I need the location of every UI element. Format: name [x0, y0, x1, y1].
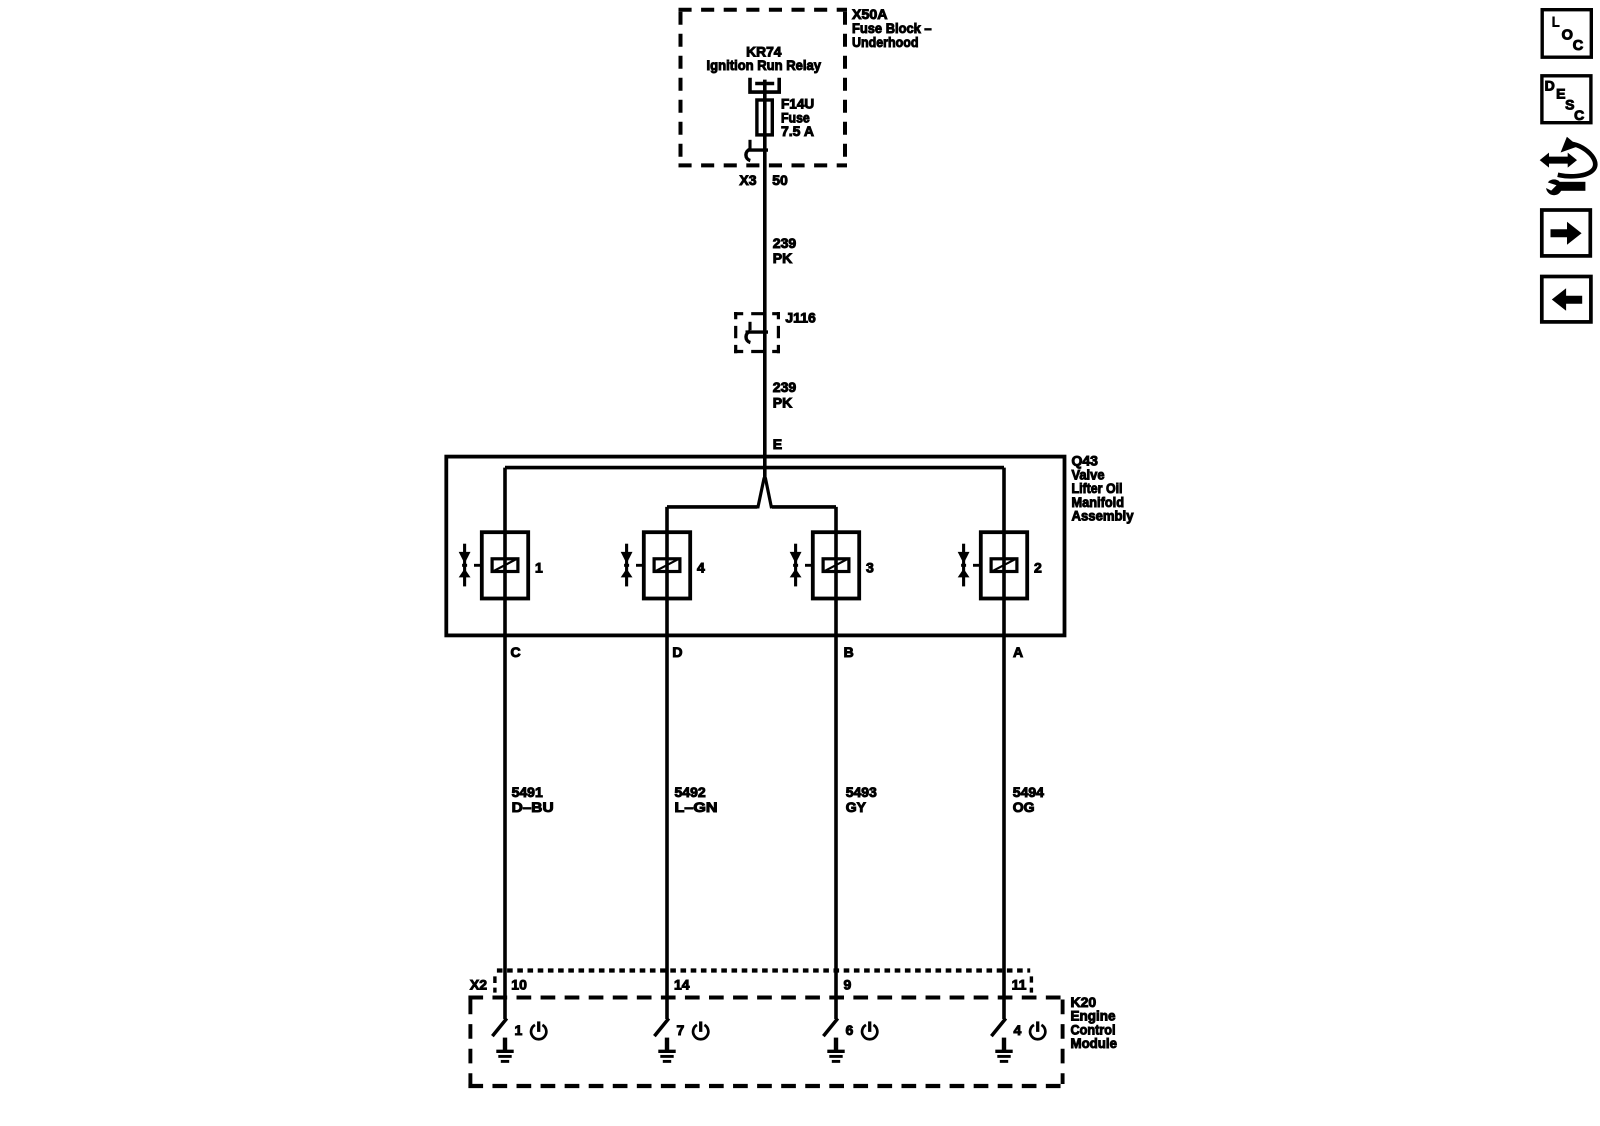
svg-text:D: D	[1545, 78, 1555, 94]
svg-text:Ignition Run Relay: Ignition Run Relay	[707, 57, 822, 73]
svg-text:239: 239	[773, 235, 797, 251]
wire: column 1 feed and return through Q43	[503, 468, 507, 1019]
svg-text:Module: Module	[1071, 1035, 1118, 1051]
svg-text:S: S	[1565, 97, 1574, 113]
ground symbol (pin 1 driver)	[496, 1038, 513, 1062]
svg-text:PK: PK	[773, 394, 792, 410]
label X50A Fuse Block - Underhood	[852, 6, 932, 50]
wire: column 4 feed and return through Q43	[665, 507, 669, 1019]
svg-text:9: 9	[844, 977, 852, 993]
label Q43 Valve Lifter Oil Manifold Assembly	[1072, 453, 1134, 524]
svg-text:C: C	[1574, 107, 1584, 123]
svg-text:Underhood: Underhood	[852, 34, 919, 50]
svg-text:5494: 5494	[1013, 784, 1044, 800]
svg-text:1: 1	[515, 1022, 523, 1038]
ground symbol (pin 7 driver)	[658, 1038, 675, 1062]
svg-text:5493: 5493	[846, 784, 877, 800]
svg-text:4: 4	[1014, 1022, 1022, 1038]
relay KR74 label	[707, 43, 822, 73]
svg-text:4: 4	[697, 560, 705, 576]
svg-text:5492: 5492	[675, 784, 706, 800]
svg-text:X3: X3	[739, 172, 756, 188]
solenoid 3 check-valve symbol	[790, 544, 802, 587]
schematic navigation icon (double arrow, loop arrow, wrench)	[1540, 137, 1596, 195]
power control icon (pin 7)	[693, 1021, 708, 1039]
wire: lower bus D to B with splice peak	[667, 478, 836, 509]
connector X3 pin 50 labels	[739, 172, 788, 188]
ECM driver switch for pin 7	[654, 1018, 668, 1036]
solenoid 1 check-valve symbol	[459, 544, 471, 587]
solenoid 4 outline box	[644, 532, 690, 598]
wire: column 3 feed and return through Q43	[834, 507, 838, 1019]
solenoid 1 valve stub wire	[474, 564, 482, 567]
splice J116 dashed box	[734, 312, 780, 353]
back arrow button	[1542, 277, 1591, 322]
solenoid 3 valve stub wire	[805, 564, 813, 567]
svg-text:10: 10	[511, 977, 527, 993]
solenoid 4 coil with slash	[654, 559, 680, 572]
connector terminal clip at fuse block output	[746, 140, 768, 161]
svg-text:14: 14	[674, 977, 690, 993]
solenoid 3 coil with slash	[823, 559, 849, 572]
svg-text:50: 50	[772, 172, 788, 188]
svg-text:Assembly: Assembly	[1072, 508, 1134, 524]
solenoid 1 outline box	[482, 532, 528, 598]
svg-text:A: A	[1013, 644, 1023, 660]
svg-text:GY: GY	[846, 799, 867, 815]
svg-text:6: 6	[846, 1022, 854, 1038]
wire label 5492	[675, 784, 718, 815]
solenoid 2 valve stub wire	[973, 564, 981, 567]
power control icon (pin 4)	[1030, 1021, 1045, 1039]
power control icon (pin 6)	[862, 1021, 877, 1039]
svg-text:2: 2	[1034, 560, 1042, 576]
svg-text:X2: X2	[470, 977, 487, 993]
solenoid 4 valve stub wire	[636, 564, 644, 567]
fuse block X50A dashed box	[679, 10, 848, 166]
solenoid 4 check-valve symbol	[621, 544, 633, 587]
svg-text:3: 3	[866, 560, 874, 576]
solenoid 1 coil with slash	[492, 559, 518, 572]
splice J116 terminal clip	[746, 322, 769, 343]
wire label 5491	[512, 784, 554, 815]
K20 engine control module dashed box	[468, 998, 1064, 1087]
svg-text:11: 11	[1012, 977, 1027, 993]
svg-text:C: C	[1573, 38, 1584, 54]
svg-text:D–BU: D–BU	[512, 799, 554, 815]
svg-text:1: 1	[535, 560, 543, 576]
solenoid 2 coil with slash	[991, 559, 1017, 572]
ECM driver switch for pin 1	[492, 1018, 506, 1036]
solenoid 2 check-valve symbol	[958, 544, 970, 587]
wire label 5493	[846, 784, 877, 815]
svg-text:5491: 5491	[512, 784, 543, 800]
svg-text:7: 7	[677, 1022, 685, 1038]
svg-text:E: E	[773, 436, 782, 452]
svg-text:C: C	[511, 644, 521, 660]
LOC button	[1542, 10, 1591, 58]
svg-text:B: B	[844, 644, 854, 660]
wire label 239 PK (upper)	[773, 235, 797, 266]
wire: main feed from relay down to splice E	[763, 80, 767, 479]
ground symbol (pin 4 driver)	[995, 1038, 1012, 1062]
wire label 239 PK (lower)	[773, 379, 797, 410]
power control icon (pin 1)	[531, 1021, 546, 1039]
solenoid 2 outline box	[981, 532, 1027, 598]
wire label 5494	[1013, 784, 1044, 815]
label K20 Engine Control Module	[1071, 994, 1118, 1051]
ECM driver switch for pin 6	[823, 1018, 837, 1036]
svg-text:OG: OG	[1013, 799, 1035, 815]
svg-text:L: L	[1552, 14, 1560, 30]
DESC button	[1542, 76, 1591, 123]
wire: upper bus C to A	[505, 466, 1004, 470]
relay KR74 contact symbol	[750, 78, 779, 92]
svg-text:O: O	[1562, 28, 1573, 44]
ECM driver switch for pin 4	[991, 1018, 1005, 1036]
svg-text:7.5 A: 7.5 A	[781, 123, 814, 139]
svg-text:D: D	[672, 644, 682, 660]
label F14U Fuse 7.5 A	[781, 96, 814, 140]
ground symbol (pin 6 driver)	[827, 1038, 844, 1062]
Q43 valve lifter oil manifold assembly box	[446, 457, 1064, 636]
solenoid 3 outline box	[813, 532, 859, 598]
svg-text:E: E	[1556, 86, 1565, 102]
svg-text:J116: J116	[785, 310, 816, 326]
svg-text:PK: PK	[773, 250, 792, 266]
connector X2 dotted line	[495, 971, 1032, 993]
svg-text:239: 239	[773, 379, 797, 395]
forward arrow button	[1542, 210, 1591, 256]
fuse F14U symbol	[757, 100, 772, 135]
wire: column 2 feed and return through Q43	[1002, 468, 1006, 1019]
svg-text:L–GN: L–GN	[675, 799, 718, 815]
